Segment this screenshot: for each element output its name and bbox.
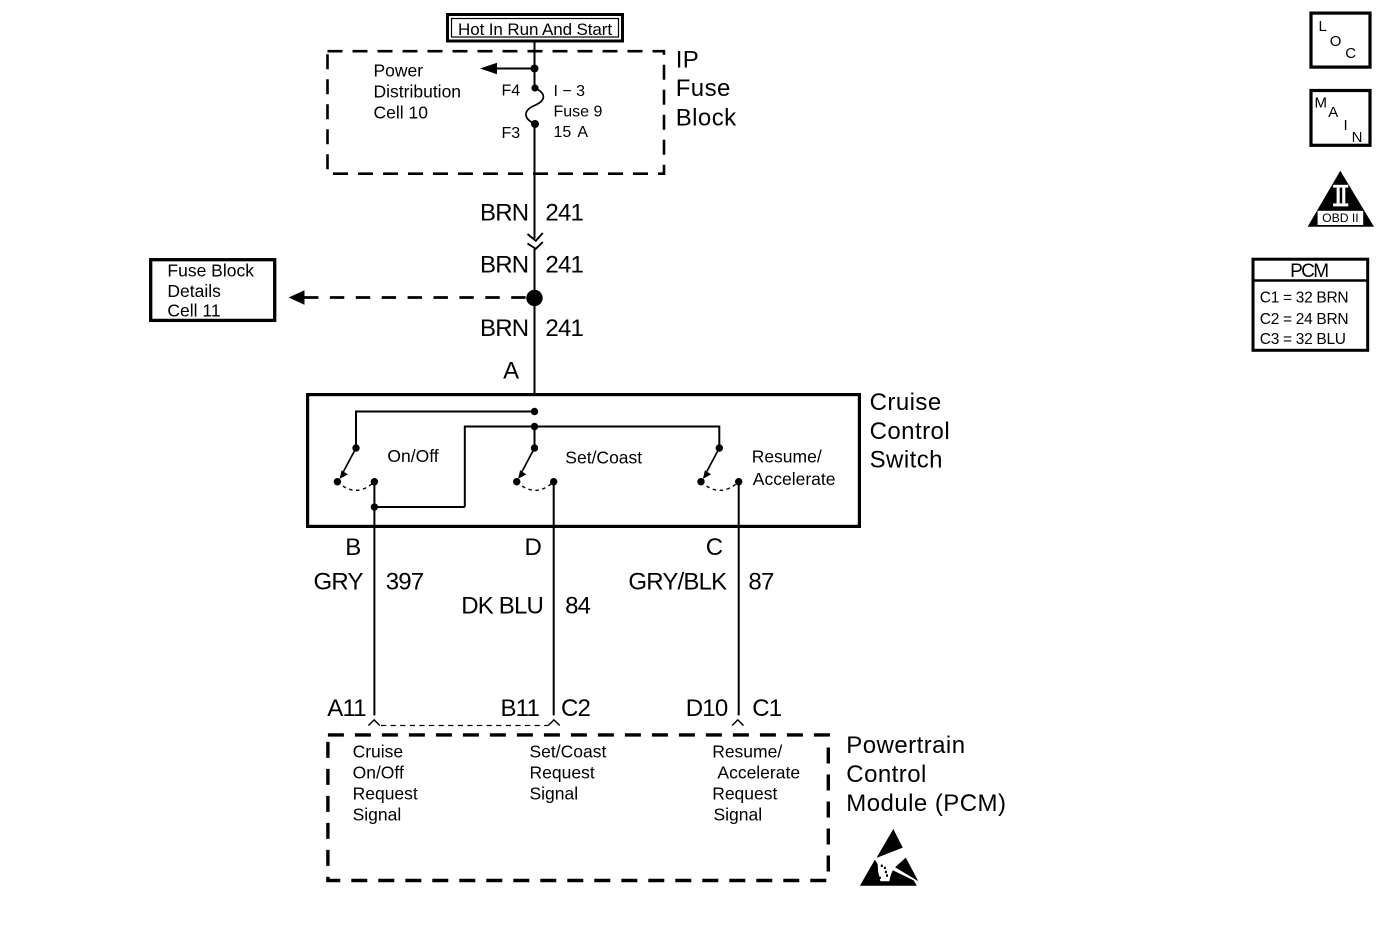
svg-text:Hot In Run And Start: Hot In Run And Start — [458, 20, 612, 39]
node: junction dot On/Off output — [371, 503, 378, 510]
svg-text:C: C — [706, 534, 723, 561]
icon: LOC box — [1311, 13, 1370, 67]
svg-text:C2: C2 — [561, 695, 591, 722]
svg-text:Powertrain: Powertrain — [846, 732, 965, 759]
pin F3 of fuse — [531, 120, 539, 128]
switch Set/Coast: top contact — [531, 444, 538, 451]
label: fuse value I-3 Fuse 9 15 A — [554, 83, 603, 141]
wire: from Hot box to fuse F4 — [534, 42, 536, 88]
wire: dashed reference line to Fuse Block Details — [289, 290, 527, 304]
switch Resume/Accelerate: dashed throw arc — [701, 482, 739, 491]
wire label BRN 241 (1) — [480, 199, 583, 226]
wire label GRY/BLK 87 — [628, 569, 774, 596]
svg-text:Distribution: Distribution — [374, 82, 462, 102]
svg-text:C2 = 24 BRN: C2 = 24 BRN — [1260, 311, 1348, 328]
svg-text:M: M — [1315, 94, 1328, 111]
svg-text:Fuse 9: Fuse 9 — [554, 104, 603, 121]
svg-text:IP: IP — [676, 46, 700, 73]
svg-text:397: 397 — [386, 569, 424, 596]
svg-text:Block: Block — [676, 104, 737, 131]
svg-text:Cruise: Cruise — [870, 389, 942, 416]
svg-text:84: 84 — [565, 593, 591, 620]
wire label GRY 397 — [314, 569, 424, 596]
svg-text:Request: Request — [530, 763, 595, 783]
svg-text:Control: Control — [846, 761, 927, 788]
label: Powertrain Control Module (PCM) — [846, 732, 1006, 817]
switch Resume/Accelerate: right contact — [735, 478, 742, 485]
svg-text:BRN: BRN — [480, 199, 528, 226]
IP Fuse Block dashed box — [328, 51, 665, 174]
svg-text:B11: B11 — [500, 695, 539, 722]
svg-text:I − 3: I − 3 — [554, 83, 586, 100]
node: splice dot S201 — [526, 290, 542, 306]
svg-text:A: A — [503, 357, 519, 384]
wire: Set/Coast output down to pin D / B11 — [553, 482, 555, 716]
pin F4 of fuse — [531, 84, 538, 91]
svg-text:PCM: PCM — [1290, 261, 1328, 282]
svg-text:I: I — [1344, 117, 1348, 134]
wire: On/Off output down — [373, 482, 375, 507]
wire label BRN 241 (2) — [480, 251, 583, 278]
switch S1: Cruise Control Switch box — [308, 395, 860, 527]
wire: branch to Power Distribution with arrow — [480, 63, 535, 74]
svg-text:Cell 11: Cell 11 — [167, 301, 220, 321]
svg-text:Control: Control — [870, 418, 951, 445]
switch On/Off: blade with arrow — [340, 448, 356, 479]
wire: On/Off output to bus riser — [374, 506, 464, 508]
table: PCM connector table — [1253, 259, 1368, 350]
svg-text:Switch: Switch — [870, 447, 943, 474]
svg-text:Resume/: Resume/ — [752, 446, 822, 466]
svg-text:A11: A11 — [327, 695, 366, 722]
splice chevron symbols — [528, 233, 543, 249]
svg-text:BRN: BRN — [480, 315, 528, 342]
wire: main down to Set/Coast top contact — [534, 427, 536, 449]
label: Cruise On/Off Request Signal — [353, 742, 418, 825]
wire label DK BLU 84 — [461, 593, 590, 620]
svg-text:87: 87 — [748, 569, 774, 596]
svg-text:Set/Coast: Set/Coast — [530, 742, 607, 762]
fuse F9 element (S-curve) — [526, 88, 543, 124]
node: junction dot feed On/Off — [531, 408, 538, 415]
svg-text:Cruise: Cruise — [353, 742, 404, 762]
svg-text:C3 = 32 BLU: C3 = 32 BLU — [1260, 331, 1346, 348]
wire: dashed connector face line A11-B11 — [381, 725, 548, 727]
svg-text:Set/Coast: Set/Coast — [565, 448, 642, 468]
svg-text:241: 241 — [545, 199, 583, 226]
connector pin caret A11 — [368, 720, 379, 726]
label: Resume/Accelerate Request Signal — [712, 742, 800, 825]
wire: bus from On/Off output to Resume top contact — [465, 427, 720, 508]
switch Set/Coast: right contact — [550, 478, 557, 485]
svg-text:On/Off: On/Off — [353, 763, 404, 783]
svg-text:Fuse Block: Fuse Block — [167, 261, 254, 281]
node: Hot In Run And Start box — [448, 15, 623, 42]
svg-text:Signal: Signal — [353, 805, 402, 825]
svg-text:Power: Power — [374, 61, 424, 81]
svg-text:On/Off: On/Off — [387, 446, 438, 466]
switch On/Off: top contact — [352, 444, 359, 451]
switch Resume/Accelerate: blade with arrow — [703, 448, 719, 479]
svg-text:Fuse: Fuse — [676, 75, 731, 102]
svg-text:D: D — [525, 534, 542, 561]
module U1: Powertrain Control Module dashed box — [328, 735, 828, 881]
icon: ESD sensitive symbol — [860, 829, 918, 886]
svg-text:241: 241 — [545, 315, 583, 342]
switch Set/Coast: dashed throw arc — [517, 482, 554, 491]
svg-text:241: 241 — [545, 251, 583, 278]
switch Resume/Accelerate: top contact — [716, 444, 723, 451]
label: Cruise Control Switch — [870, 389, 951, 474]
switch On/Off: right contact — [371, 478, 378, 485]
svg-text:Signal: Signal — [530, 784, 579, 804]
node: junction dot feed bus — [531, 423, 538, 430]
svg-text:Request: Request — [353, 784, 418, 804]
svg-text:L: L — [1319, 18, 1327, 35]
svg-text:F3: F3 — [502, 125, 521, 142]
wire: fuse F3 down to splice chevrons — [534, 124, 536, 239]
switch Set/Coast: left contact — [513, 478, 520, 485]
switch On/Off: dashed throw arc — [337, 482, 374, 491]
svg-text:DK BLU: DK BLU — [461, 593, 543, 620]
switch On/Off: left contact — [334, 478, 341, 485]
connector pin caret D10/C1 — [732, 720, 743, 726]
svg-text:Accelerate: Accelerate — [753, 469, 836, 489]
wire: feed to On/Off top contact — [356, 412, 535, 449]
svg-text:A: A — [1328, 104, 1338, 121]
svg-text:Module (PCM): Module (PCM) — [846, 790, 1006, 817]
connector pin caret B11/C2 — [548, 720, 559, 726]
label: Set/Coast Request Signal — [530, 742, 607, 804]
icon: OBD II triangle — [1308, 171, 1374, 227]
switch Resume/Accelerate: left contact — [697, 478, 704, 485]
node: Fuse Block Details box — [151, 260, 275, 321]
svg-text:BRN: BRN — [480, 251, 528, 278]
wire: Resume output down to pin C / D10 — [738, 482, 740, 716]
svg-text:Signal: Signal — [714, 805, 763, 825]
svg-text:B: B — [345, 534, 360, 561]
svg-text:C1: C1 — [752, 695, 782, 722]
svg-text:GRY: GRY — [314, 569, 364, 596]
wire: On/Off output down to pin B / A11 — [373, 507, 375, 715]
node: junction dot at power branch — [531, 65, 539, 73]
svg-text:15 A: 15 A — [554, 124, 589, 141]
svg-text:O: O — [1330, 33, 1342, 50]
svg-text:D10: D10 — [686, 695, 728, 722]
wire: splice down to switch box — [534, 249, 536, 394]
label: Power Distribution Cell 10 — [374, 61, 462, 123]
svg-text:OBD II: OBD II — [1322, 211, 1359, 225]
wire label BRN 241 (3) — [480, 315, 583, 342]
label: IP Fuse Block — [676, 46, 737, 131]
svg-text:Resume/: Resume/ — [712, 742, 782, 762]
svg-text:Request: Request — [712, 784, 777, 804]
svg-text:C1 = 32 BRN: C1 = 32 BRN — [1260, 290, 1348, 307]
svg-text:Accelerate: Accelerate — [717, 763, 800, 783]
svg-text:Details: Details — [167, 281, 221, 301]
switch Set/Coast: blade with arrow — [518, 448, 534, 479]
svg-text:N: N — [1352, 129, 1363, 146]
svg-text:C: C — [1345, 45, 1356, 62]
svg-text:GRY/BLK: GRY/BLK — [628, 569, 727, 596]
svg-text:Cell 10: Cell 10 — [374, 103, 429, 123]
icon: MAIN box — [1311, 91, 1370, 147]
svg-text:F4: F4 — [502, 83, 521, 100]
label Resume/Accelerate — [752, 446, 836, 489]
